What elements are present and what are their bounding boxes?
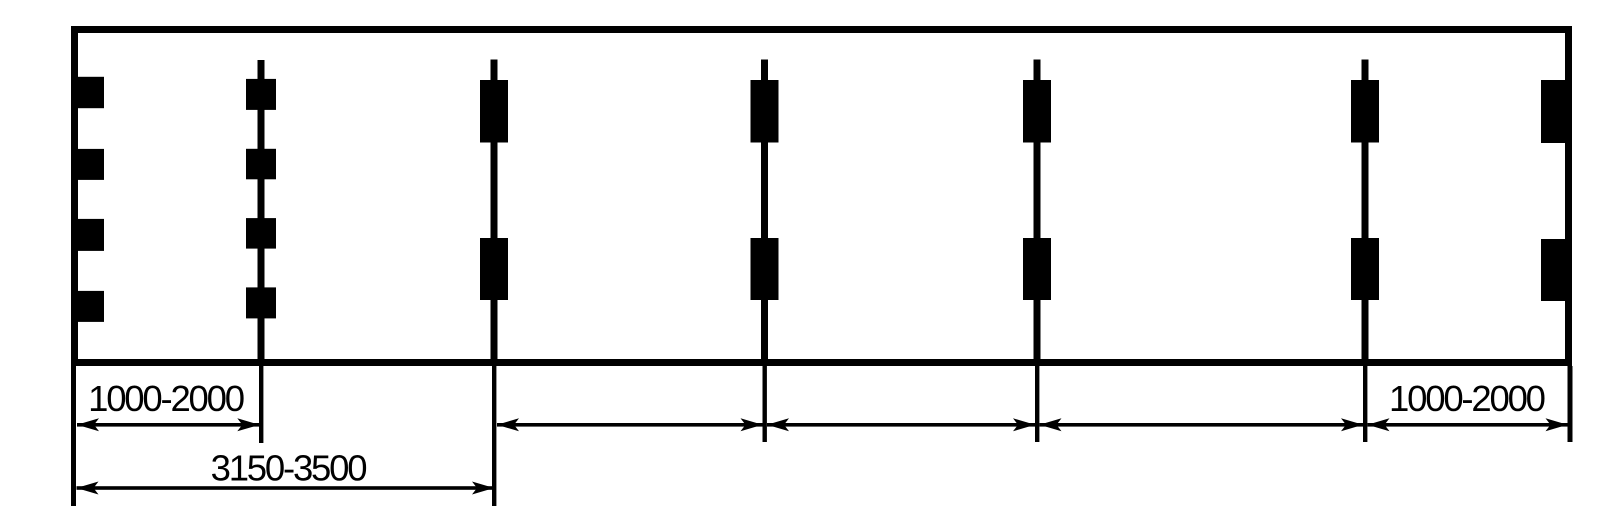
insulator tube P5-2 [1023, 238, 1051, 300]
insulator P2-2 [246, 149, 276, 180]
dimension line D1 (left 1000-2000) [77, 418, 259, 431]
insulator tube P3-2 [480, 238, 508, 300]
extension line from left wall edge [71, 366, 76, 506]
post P2 stem [258, 60, 265, 366]
extension line from post P5 [1035, 366, 1039, 442]
insulator P2-1 [246, 79, 276, 110]
post P4 stem [761, 60, 768, 367]
dimension line D6 (3150-3500) [77, 482, 495, 495]
insulator L1 on left end post [71, 77, 104, 108]
insulator tube P6-1 [1351, 80, 1379, 143]
insulator tube P6-2 [1351, 238, 1379, 300]
insulator L2 on left end post [71, 149, 104, 180]
svg-text:3150-3500: 3150-3500 [211, 448, 367, 489]
insulator tube P4-2 [751, 238, 779, 300]
extension line from post P3 [492, 366, 496, 506]
dimension line D5 (right 1000-2000) [1368, 418, 1568, 431]
dimension line D2 (span P3-P4) [497, 418, 763, 431]
insulator tube R2 on right end post [1541, 239, 1572, 301]
dimension label "1000-2000" left [88, 378, 244, 419]
insulator tube R1 on right end post [1541, 80, 1572, 143]
insulator tube P5-1 [1023, 80, 1051, 143]
insulator L3 on left end post [71, 219, 104, 251]
svg-text:1000-2000: 1000-2000 [1389, 378, 1545, 419]
dimension label "1000-2000" right [1389, 378, 1545, 419]
dimension line D4 (span P5-P6) [1040, 418, 1364, 431]
insulator tube P4-1 [751, 80, 779, 143]
post P6 stem [1362, 60, 1369, 367]
insulator P2-3 [246, 218, 276, 249]
extension line from right wall edge [1568, 366, 1573, 442]
insulator L4 on left end post [71, 291, 104, 322]
insulator P2-4 [246, 287, 276, 318]
dimension line D3 (span P4-P5) [767, 418, 1035, 431]
post P3 stem [491, 60, 498, 367]
insulator tube P3-1 [480, 80, 508, 143]
extension line from post P4 [763, 366, 767, 442]
fence wall outline (outer frame) [75, 30, 1569, 363]
svg-text:1000-2000: 1000-2000 [88, 378, 244, 419]
dimension label "3150-3500" [211, 448, 367, 489]
extension line from post P6 [1363, 366, 1367, 442]
post P5 stem [1034, 60, 1041, 367]
extension line from post P2 [259, 366, 263, 443]
